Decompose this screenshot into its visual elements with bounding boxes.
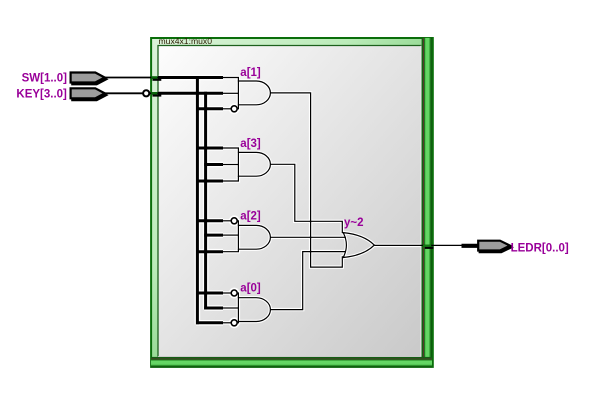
- wire a0 out to OR in3: [270, 252, 346, 310]
- bus stub a2 in1: [196, 219, 223, 222]
- thin jog a0 in3: [237, 321, 240, 323]
- thin input a1 in1: [223, 78, 238, 82]
- module frame bottom bevel strip: [151, 357, 432, 368]
- bus vertical 1 (SW): [196, 76, 199, 324]
- thin input a3 in3: [223, 176, 238, 181]
- bus SW row inside block: [158, 76, 223, 79]
- input pin SW[1..0] shadow: [72, 74, 106, 84]
- input pin SW[1..0]: [71, 73, 105, 83]
- inner border left: [157, 45, 159, 357]
- wire a2 out to OR in2: [270, 236, 346, 238]
- thin input a2 in1: [223, 220, 231, 222]
- output pin tail: [462, 244, 481, 248]
- thin jog a1 in3: [237, 104, 240, 108]
- thin input a2 in2: [223, 234, 238, 236]
- input pin KEY[3..0]: [71, 88, 105, 98]
- port tick SW black: [153, 79, 162, 81]
- thin input a3 in2: [223, 164, 238, 166]
- bus stub a0 in3: [196, 321, 223, 324]
- bus stub a3 in1: [196, 147, 223, 150]
- wire a3 out to OR in1: [270, 164, 343, 232]
- thin jog a2 in1: [237, 221, 240, 226]
- svg-text:a[1]: a[1]: [240, 67, 261, 79]
- bus stub a0 in2: [204, 307, 223, 310]
- bus stub a0 in1: [196, 292, 223, 295]
- bus stub a1 in3: [196, 107, 223, 110]
- svg-text:SW[1..0]: SW[1..0]: [22, 73, 68, 85]
- wire SW pin to block: [104, 77, 158, 79]
- svg-text:a[2]: a[2]: [240, 211, 261, 223]
- or-gate y~2: [343, 233, 374, 258]
- bus vertical 2 (KEY): [204, 92, 207, 310]
- thin input a2 in3: [223, 249, 238, 252]
- svg-text:LEDR[0..0]: LEDR[0..0]: [511, 242, 569, 254]
- port tick SW green: [151, 76, 157, 79]
- bubble a2 in1: [231, 218, 237, 224]
- bubble a0 in3: [231, 320, 237, 326]
- bubble a1 in3: [231, 106, 237, 112]
- bus stub a2 in2: [204, 234, 223, 237]
- thin input a1 in3: [223, 108, 231, 110]
- wire KEY bubble to block: [150, 92, 159, 94]
- bus stub a3 in2: [204, 163, 223, 166]
- port tick LEDR green: [423, 245, 431, 247]
- inner border bottom halo: [158, 355, 422, 357]
- svg-text:y~2: y~2: [344, 217, 364, 229]
- bubble a0 in1: [231, 290, 237, 296]
- thin jog a0 in1: [237, 293, 240, 298]
- and-gate a[2]: [238, 225, 270, 249]
- output pin LEDR[0..0]: [478, 241, 510, 251]
- wire casing halo group: [158, 76, 463, 327]
- thin input a3 in1: [223, 148, 238, 153]
- thin input a0 in3: [223, 322, 231, 324]
- input pin KEY[3..0] shadow: [72, 90, 106, 100]
- port tick LEDR black: [425, 247, 434, 249]
- inner border top: [158, 45, 422, 47]
- bus stub a3 in3: [196, 180, 223, 183]
- bus stub a2 in3: [196, 250, 223, 253]
- module inner content area: [158, 46, 421, 357]
- and-gate a[0]: [238, 298, 270, 322]
- module frame right bevel strip: [422, 38, 432, 367]
- wire a1 out to OR in4: [270, 93, 343, 267]
- and-gate a[3]: [238, 152, 270, 176]
- inner border right halo: [420, 46, 422, 357]
- bus KEY row inside block: [158, 92, 223, 95]
- thin input a0 in1: [223, 292, 231, 294]
- module frame mux4x1:mux0 outer band: [151, 38, 433, 367]
- inverter bubble on KEY wire: [143, 90, 149, 96]
- output pin LEDR[0..0] shadow: [480, 243, 511, 253]
- wire KEY pin to bubble: [104, 92, 143, 94]
- svg-text:a[3]: a[3]: [240, 138, 261, 150]
- port tick KEY black: [153, 95, 162, 97]
- port tick KEY green: [151, 92, 157, 95]
- svg-text:mux4x1:mux0: mux4x1:mux0: [159, 36, 213, 46]
- svg-text:a[0]: a[0]: [240, 283, 261, 295]
- thin input a0 in2: [223, 307, 238, 309]
- svg-text:KEY[3..0]: KEY[3..0]: [16, 89, 67, 101]
- wire OR out to border: [374, 244, 462, 246]
- and-gate a[1]: [238, 81, 270, 105]
- thin input a1 in2: [223, 92, 238, 94]
